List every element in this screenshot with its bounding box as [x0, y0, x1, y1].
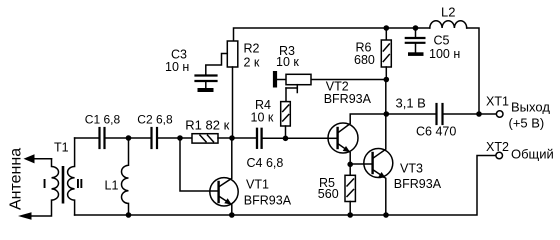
wire VT1 collector: [219, 138, 232, 187]
node C4-R4-VT2 base: [283, 136, 289, 142]
resistor R6: [381, 40, 391, 67]
ground (C3): [198, 88, 214, 92]
antenna arrow top: [34, 158, 52, 160]
wire VT1 emitter: [219, 196, 232, 215]
svg-text:10 к: 10 к: [251, 111, 274, 125]
node rail-R6: [384, 25, 390, 31]
capacitor C2: [152, 128, 158, 148]
label winding I: [44, 179, 46, 188]
svg-text:3,1 В: 3,1 В: [396, 95, 426, 110]
node VT3 emitter ground: [383, 212, 389, 218]
wire VT1 base lead: [180, 138, 219, 191]
svg-text:10 н: 10 н: [165, 60, 189, 74]
node L2-C6-XT1: [476, 111, 482, 117]
inductor L1: [122, 138, 129, 215]
antenna arrow bottom: [18, 212, 32, 220]
svg-text:Антенна: Антенна: [8, 148, 25, 210]
node R5 ground: [347, 212, 353, 218]
svg-text:T1: T1: [54, 141, 69, 155]
resistor R1: [192, 134, 218, 143]
wire output node to C6: [386, 113, 435, 115]
wire C2 to R1: [158, 137, 192, 139]
wire R3 wiper crossbar: [286, 87, 297, 89]
wire R5 bottom lead: [349, 202, 351, 216]
node VT1 emitter ground: [229, 212, 235, 218]
wire R3 wiper to R4: [285, 88, 287, 102]
wire VT3 collector up to R6: [373, 80, 386, 159]
svg-text:L2: L2: [441, 4, 455, 19]
svg-text:Выход: Выход: [511, 99, 550, 114]
svg-text:BFR93A: BFR93A: [244, 194, 292, 208]
wire T1 to C1: [75, 137, 99, 139]
resistor R4: [281, 102, 291, 126]
node L1 top: [126, 135, 132, 141]
wire VT2 emitter to VT3 base: [350, 163, 372, 165]
capacitor C5: [406, 38, 425, 43]
wire C5 to ground: [415, 44, 417, 52]
wire L2 right end down to output node: [467, 28, 479, 114]
node VT2 emitter-R5-VT3 base: [347, 162, 353, 168]
wire ground bus to XT2: [75, 156, 496, 216]
terminal XT2: [496, 152, 503, 159]
wire R3 left lead: [277, 79, 286, 81]
wire R3 right to R6 bottom: [311, 79, 386, 81]
wire R5 top lead: [349, 165, 351, 176]
node R1-R2-C4-VT1 collector: [229, 135, 235, 141]
svg-text:C1 6,8: C1 6,8: [85, 113, 121, 127]
capacitor C4: [257, 129, 262, 148]
svg-text:Общий: Общий: [511, 147, 554, 162]
resistor R5: [345, 175, 355, 201]
node R6-R3: [384, 77, 390, 83]
svg-text:C4 6,8: C4 6,8: [247, 156, 284, 170]
svg-text:XT1: XT1: [486, 95, 509, 109]
svg-text:C2 6,8: C2 6,8: [137, 113, 173, 127]
svg-text:2 к: 2 к: [244, 56, 260, 70]
svg-text:BFR93A: BFR93A: [324, 92, 372, 106]
wire VT2 collector to output node: [338, 114, 387, 133]
wire C3 to ground: [205, 82, 207, 88]
svg-text:VT3: VT3: [400, 162, 423, 176]
svg-text:C6 470: C6 470: [416, 125, 456, 139]
wire R2 bottom lead down to VT1 collector node: [232, 67, 234, 138]
transistor VT2: [328, 123, 358, 153]
wire VT3 emitter to ground bus: [373, 170, 386, 216]
svg-text:L1: L1: [105, 179, 119, 193]
wire C6 to XT1: [444, 113, 497, 115]
transformer T1 winding I: [32, 159, 59, 216]
svg-text:10 к: 10 к: [276, 55, 299, 69]
wire R6 top lead: [385, 28, 387, 40]
wire R6 bottom lead: [385, 67, 387, 80]
svg-text:R1 82 к: R1 82 к: [185, 118, 229, 133]
capacitor C1: [100, 128, 105, 148]
wire C3 staircase to R2: [206, 54, 228, 75]
svg-text:XT2: XT2: [486, 140, 509, 154]
svg-text:(+5 В): (+5 В): [509, 115, 545, 130]
capacitor C6: [437, 104, 443, 124]
svg-text:R2: R2: [244, 42, 260, 56]
label winding II: [77, 179, 82, 188]
trimmer bar of R3: [273, 71, 277, 88]
transformer T1 core: [62, 166, 65, 204]
resistor R2: [227, 41, 238, 67]
wire R4 bottom lead: [285, 126, 287, 138]
wire R1 to C4: [218, 137, 256, 139]
node rail-C5: [413, 25, 419, 31]
wire top +5V rail from R2 to L2: [234, 28, 430, 41]
terminal XT1: [496, 111, 503, 118]
wire C5 top lead: [415, 28, 417, 37]
svg-text:100 н: 100 н: [429, 47, 460, 61]
node C2-R1-VT1 base: [177, 135, 183, 141]
node collector VT3 / C6: [384, 111, 390, 117]
resistor R3: [286, 74, 311, 84]
wire C1 to C2: [106, 137, 151, 139]
svg-text:BFR93A: BFR93A: [394, 177, 442, 191]
svg-text:VT1: VT1: [246, 178, 269, 192]
transistor VT1: [210, 178, 238, 206]
wire C4 to VT2 base: [263, 137, 338, 139]
svg-text:560: 560: [318, 187, 339, 201]
transformer T1 winding II: [68, 138, 75, 215]
inductor L2: [430, 21, 467, 28]
wire VT2 emitter: [338, 144, 351, 165]
svg-text:680: 680: [354, 53, 375, 67]
transistor VT3: [364, 149, 393, 178]
ground (C5): [408, 52, 424, 56]
svg-text:C5: C5: [434, 34, 450, 48]
wire R3 wiper: [296, 85, 298, 93]
capacitor C3: [196, 76, 217, 82]
node L1 bottom: [126, 212, 132, 218]
